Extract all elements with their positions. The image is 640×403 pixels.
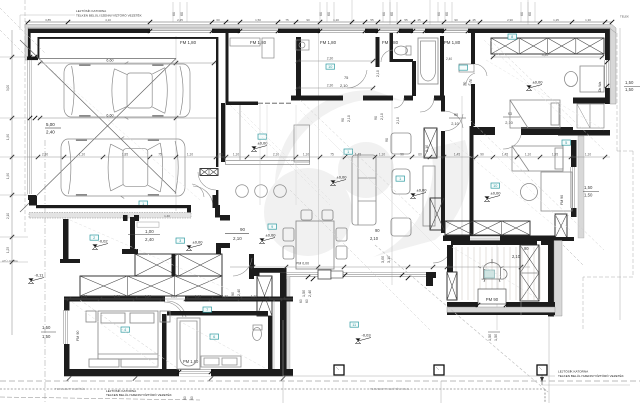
svg-text:3,00: 3,00 [381,256,385,263]
svg-text:60: 60 [437,12,441,16]
svg-text:3,00: 3,00 [6,85,10,91]
terrace west wall [447,245,453,272]
garage west wall [28,29,31,59]
svg-text:4,10: 4,10 [105,18,111,22]
terrace edges [283,375,555,377]
svg-text:75: 75 [158,153,162,157]
svg-text:TELKEN BELÜLI SZENNYVÍZTÖRŐ VE: TELKEN BELÜLI SZENNYVÍZTÖRŐ VEZETÉK [106,392,173,397]
pantry west wall [226,33,229,105]
svg-text:2,10: 2,10 [380,113,384,120]
roof overhang dashed [616,33,618,151]
svg-text:45: 45 [472,18,476,22]
car 1 [64,62,190,120]
svg-text:1,50: 1,50 [488,334,492,341]
corridor west wall [441,96,445,112]
svg-text:3,10: 3,10 [387,256,391,263]
svg-text:2,10: 2,10 [347,115,351,122]
room faint diagonals [240,110,330,200]
garage north inner wall [38,37,217,39]
svg-text:2,10: 2,10 [340,83,348,88]
svg-text:55: 55 [370,18,374,22]
suite bottom dim ticks [67,376,71,380]
svg-text:60: 60 [172,12,176,16]
svg-text:60: 60 [528,12,532,16]
svg-text:90: 90 [374,116,378,120]
hatched pier living 2 [430,198,444,230]
svg-text:2,10: 2,10 [233,236,242,241]
svg-text:±0,00: ±0,00 [337,175,348,180]
wc south wall [390,59,413,62]
svg-text:2,10: 2,10 [370,236,379,241]
svg-text:90: 90 [480,153,484,157]
svg-text:2,10: 2,10 [512,254,521,259]
svg-text:60: 60 [183,396,187,400]
svg-text:2,10: 2,10 [425,145,429,152]
garage east wall [216,37,218,167]
svg-text:1,45: 1,45 [502,153,508,157]
suite dim line [64,298,293,300]
bed suite [86,311,170,367]
garage step hatch [200,169,218,176]
svg-text:1,90: 1,90 [6,134,10,140]
svg-text:FM 1,80: FM 1,80 [180,40,197,45]
svg-text:1: 1 [399,177,401,181]
terrace south wall [447,302,478,307]
svg-text:1,45: 1,45 [454,153,460,157]
svg-text:60: 60 [382,12,386,16]
svg-text:-0,02: -0,02 [99,239,109,244]
svg-text:±0,00: ±0,00 [491,191,502,196]
bedroom2 south wall [443,236,555,242]
svg-text:2,10: 2,10 [376,70,380,77]
svg-text:60: 60 [418,153,422,157]
suite west wall [64,302,70,311]
svg-text:60: 60 [190,396,194,400]
shaft wall [390,33,394,62]
svg-text:2,10: 2,10 [6,213,10,219]
svg-text:TELKEN BELÜLI SZENNYVÍZTÖRŐ VE: TELKEN BELÜLI SZENNYVÍZTÖRŐ VEZETÉK [76,13,143,18]
garage south wall [29,196,37,206]
wall down to suite [280,273,287,320]
terrace table [478,259,507,282]
svg-text:1,10: 1,10 [233,153,239,157]
faint inner verticals [295,105,297,205]
terrace room top wall [451,241,537,246]
labels rooms 2,3 [90,235,99,240]
svg-text:FM 90: FM 90 [76,331,80,341]
svg-text:55: 55 [404,18,408,22]
closet room top right of bath [459,64,474,72]
svg-text:60: 60 [219,153,223,157]
svg-text:2: 2 [93,236,95,240]
terrace columns [334,365,344,375]
tub suite [177,318,200,369]
svg-text:-0,03: -0,03 [362,333,372,338]
pantry east wall [296,37,301,96]
svg-text:1,10: 1,10 [525,153,531,157]
svg-text:2,40: 2,40 [308,290,312,297]
outer wall top band [25,25,616,61]
svg-text:60: 60 [319,12,323,16]
bottom boundary dashed lines [0,380,640,382]
bed bedroom2 [512,146,563,171]
svg-text:2,10: 2,10 [273,153,279,157]
svg-text:FM 1,80: FM 1,80 [250,40,267,45]
top wall windows [150,29,212,34]
bedroom2 east wall [571,140,577,167]
boiler closet [296,40,309,50]
door wall 90/240 [249,254,254,279]
top dimension chain [25,21,612,23]
svg-text:1,30: 1,30 [222,295,228,299]
svg-text:±0,00: ±0,00 [258,141,269,146]
svg-text:PM 90: PM 90 [486,297,499,302]
svg-text:9: 9 [271,225,273,229]
toilet [395,46,412,55]
svg-text:60: 60 [299,299,303,303]
left dim ticks [10,55,14,59]
svg-text:60: 60 [305,299,309,303]
svg-text:2,10: 2,10 [505,120,513,125]
svg-text:-0,11: -0,11 [35,273,45,278]
dimension line y157 [28,156,610,158]
svg-text:1,10: 1,10 [303,153,309,157]
terrace floor stripes [456,247,540,300]
svg-text:1,85: 1,85 [122,153,128,157]
svg-text:2,10: 2,10 [451,121,459,126]
car 2 [61,137,185,199]
wc west wall [376,37,380,67]
svg-text:60: 60 [180,12,184,16]
svg-text:1,10: 1,10 [195,295,201,299]
svg-text:60: 60 [390,12,394,16]
svg-text:1,10: 1,10 [171,295,177,299]
desk bedroom1 [565,66,605,92]
hatched beam corridor upper [135,254,222,276]
armchair [391,133,411,154]
svg-text:8: 8 [511,35,513,39]
glass wall to terrace [253,268,287,276]
left margin tick pairs [28,55,32,59]
svg-text:2,40: 2,40 [237,289,241,296]
svg-text:1,95: 1,95 [552,153,558,157]
svg-text:60: 60 [216,18,220,22]
svg-text:1,50: 1,50 [42,334,51,339]
svg-text:PM 1,80: PM 1,80 [444,40,461,45]
svg-text:PM 0,00: PM 0,00 [296,262,309,266]
garage side door arc [193,186,213,205]
outer right wall [605,30,610,60]
entry hall label [326,64,335,69]
svg-text:1,50: 1,50 [584,193,593,198]
svg-text:TELKEN BELÜLI SZENNYVÍZTÖRŐ VE: TELKEN BELÜLI SZENNYVÍZTÖRŐ VEZETÉK [558,373,625,378]
svg-text:90: 90 [240,227,246,232]
svg-text:10: 10 [328,65,332,69]
kitchen north wall [226,102,258,106]
svg-text:2,30: 2,30 [327,57,334,61]
hall south wall [291,96,343,101]
pavement strip [29,213,191,219]
svg-text:1,50: 1,50 [42,325,51,330]
hatch strip terrace west [447,272,457,300]
svg-text:2,40: 2,40 [145,237,154,242]
tub [418,38,438,84]
svg-text:75: 75 [285,18,289,22]
svg-text:TERVEZETT KERÍTÉS: TERVEZETT KERÍTÉS [55,386,85,391]
hatched beam family [445,221,530,235]
svg-text:6: 6 [213,335,215,339]
svg-text:3,85: 3,85 [45,18,51,22]
svg-text:1,10: 1,10 [251,295,257,299]
svg-text:1,70: 1,70 [81,295,87,299]
armchair 2 [391,218,411,236]
svg-text:6,60: 6,60 [106,59,113,63]
watermark logo [264,90,469,257]
svg-text:1,50: 1,50 [255,18,261,22]
svg-text:LEJTŐSÍK KATORNA: LEJTŐSÍK KATORNA [76,8,107,13]
svg-text:1: 1 [347,150,349,154]
terrace outer east wall [541,241,555,246]
svg-text:1,10: 1,10 [585,153,591,157]
hatch strip terrace east [520,245,539,301]
svg-text:1,00: 1,00 [145,229,154,234]
svg-text:1,50: 1,50 [625,87,634,92]
svg-text:1,70: 1,70 [114,295,120,299]
duct strip [273,300,275,369]
svg-text:2,90: 2,90 [507,18,513,22]
svg-text:±0,00: ±0,00 [193,240,204,245]
svg-text:1,10: 1,10 [187,153,193,157]
svg-text:1,40: 1,40 [164,214,170,218]
suite south wall [64,369,293,375]
svg-text:75: 75 [344,75,348,80]
suite divider wall [162,314,167,370]
svg-text:90: 90 [524,246,529,251]
hatched beam corridor lower [80,276,222,296]
dining table [283,210,347,269]
svg-text:1,45: 1,45 [355,153,361,157]
svg-text:7: 7 [206,308,208,312]
bed bedroom1 [510,100,560,128]
svg-text:1,50: 1,50 [494,334,498,341]
svg-text:TERVEZETT KERÍTÉSVONAL: TERVEZETT KERÍTÉSVONAL [370,386,410,391]
svg-text:2,10: 2,10 [396,117,400,124]
svg-text:4,20: 4,20 [542,53,549,57]
svg-text:5: 5 [565,141,567,145]
dashed diagonals [375,245,548,392]
svg-text:FM 90: FM 90 [560,195,564,205]
svg-text:2,40: 2,40 [446,57,452,61]
flag bedroom1 [526,80,543,91]
hatched pier living [424,128,437,158]
svg-text:ATÚ JARDA: ATÚ JARDA [2,259,18,263]
pantry shelves [230,38,260,46]
tub room east wall [440,36,444,96]
svg-text:1,10: 1,10 [79,153,85,157]
svg-text:TELEK: TELEK [620,15,629,19]
wc east wall [412,61,416,96]
left wall below garage [63,219,69,263]
svg-text:1,25: 1,25 [6,247,10,253]
bath north wall [167,311,268,316]
tv table [392,169,410,194]
svg-text:2,30: 2,30 [327,84,334,88]
svg-text:90: 90 [400,153,404,157]
svg-text:90: 90 [375,228,380,233]
suite top wall [64,297,165,302]
axis and site lines [11,30,13,335]
svg-text:±0,00: ±0,00 [417,188,428,193]
svg-text:45: 45 [417,18,421,22]
svg-text:11: 11 [352,323,356,327]
extra faint diagonals [230,105,330,205]
svg-text:1,20: 1,20 [333,18,339,22]
svg-text:1,25: 1,25 [553,18,559,22]
svg-text:1,90: 1,90 [6,173,10,179]
svg-text:10: 10 [493,184,497,188]
room divider wall 2/3 [130,217,135,254]
corridor piers [122,249,138,254]
svg-text:Dk Wa: Dk Wa [598,82,602,92]
svg-text:±0,00: ±0,00 [266,233,277,238]
hatch strip mid [257,276,272,316]
svg-text:90: 90 [306,18,310,22]
top leader ticks for 60 labels [172,2,174,22]
svg-text:90: 90 [231,292,235,296]
svg-text:1,10: 1,10 [379,153,385,157]
terrace window sill [478,289,506,304]
family west wall [470,126,474,241]
svg-text:1,50: 1,50 [584,185,593,190]
hatch step right [555,214,567,238]
hatched beam top-right [491,38,604,54]
garage X [20,40,176,212]
bedroom1 south wall [471,127,495,135]
closet boxes [577,104,604,128]
svg-text:FM 1,80: FM 1,80 [320,40,337,45]
desk bedroom2 [521,172,573,211]
svg-text:90: 90 [341,118,345,122]
svg-text:2,25: 2,25 [177,18,183,22]
svg-text:60: 60 [327,12,331,16]
svg-text:LEJTŐSÍK KATORNA: LEJTŐSÍK KATORNA [558,369,589,374]
garage dims [38,62,216,64]
svg-text:1,20: 1,20 [145,295,151,299]
svg-text:2,30: 2,30 [42,153,48,157]
svg-text:90: 90 [385,138,389,142]
svg-text:±0,00: ±0,00 [533,80,544,85]
svg-text:1,30: 1,30 [585,18,591,22]
svg-text:2,40: 2,40 [46,130,55,135]
svg-text:1,50: 1,50 [625,80,634,85]
sofa [352,155,376,225]
hall south wall right part [384,96,393,101]
bedroom1 west wall [471,33,475,64]
svg-text:90: 90 [454,18,458,22]
suite east outer wall [280,279,287,376]
sink counter [201,356,241,367]
svg-text:60: 60 [445,12,449,16]
svg-text:3: 3 [179,239,181,243]
closet niche walls [573,98,609,104]
interior dim y61 [296,60,375,62]
wc suite [253,325,263,341]
kitchen west wall lower [221,103,225,162]
bath east wall [268,316,273,370]
svg-text:75: 75 [330,153,334,157]
svg-text:1,50: 1,50 [302,290,306,297]
svg-text:60: 60 [520,12,524,16]
stools [236,185,249,198]
kitchen counter [226,105,310,165]
svg-text:5,00: 5,00 [46,122,55,127]
garage east wall bottom block [213,195,217,208]
